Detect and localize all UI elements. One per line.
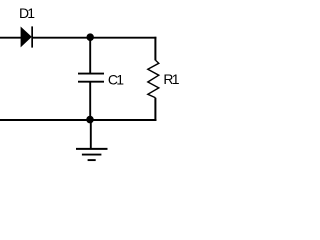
wire top: left edge to diode anode — [0, 37, 22, 39]
label C1 — [108, 71, 124, 87]
node bottom junction — [86, 116, 94, 124]
wire right: resistor bottom to bottom-right corner — [154, 98, 156, 121]
wire top: diode cathode to top-right corner — [33, 37, 156, 39]
wire right: top corner down to resistor top — [154, 37, 156, 61]
ground — [76, 149, 108, 160]
diode D1 — [21, 26, 33, 47]
wire: capacitor bottom plate down to bottom junction — [89, 82, 91, 120]
wire: bottom junction to ground — [90, 120, 92, 149]
wire: top junction down to capacitor top plate — [89, 38, 91, 74]
svg-text:R1: R1 — [163, 71, 179, 87]
svg-text:D1: D1 — [19, 5, 35, 21]
label R1 — [163, 71, 179, 87]
wire bottom: left edge to bottom-right corner — [0, 119, 156, 121]
node top junction — [86, 33, 94, 41]
svg-text:C1: C1 — [108, 71, 124, 87]
capacitor C1 — [78, 74, 104, 82]
resistor R1 — [148, 60, 159, 98]
label D1 — [19, 5, 35, 21]
